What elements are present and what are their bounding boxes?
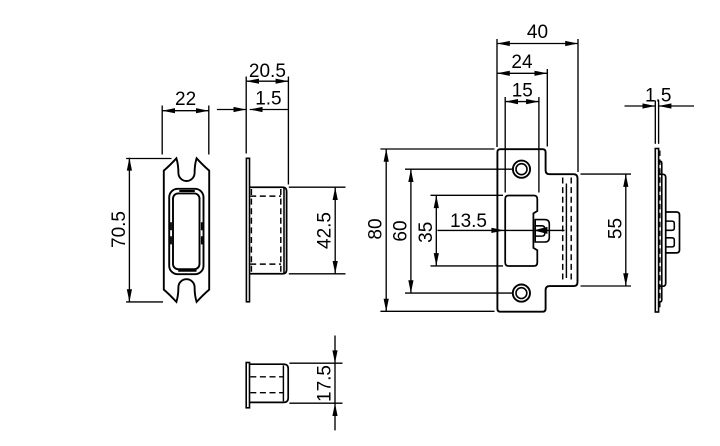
svg-text:13.5: 13.5 xyxy=(450,211,487,232)
svg-text:55: 55 xyxy=(605,218,626,239)
svg-text:1.5: 1.5 xyxy=(645,86,671,107)
opening outer ring xyxy=(169,189,203,274)
central cutout xyxy=(505,196,537,267)
dimension 35 xyxy=(431,195,504,266)
dimension 60 xyxy=(405,169,513,293)
hidden line top xyxy=(250,376,283,378)
screw hole top outer xyxy=(513,161,530,178)
latch bolt outer xyxy=(535,220,549,242)
dimension 22 xyxy=(162,106,209,155)
case inner rim line xyxy=(283,188,285,273)
latch box xyxy=(666,212,680,253)
svg-text:17.5: 17.5 xyxy=(315,365,336,402)
dimension 20.5 xyxy=(246,77,288,185)
opening inner ring xyxy=(173,193,200,269)
body inner rim line xyxy=(282,365,284,401)
dimension 70.5 xyxy=(126,158,171,302)
dimension 17.5 xyxy=(289,336,342,431)
dimension 80 xyxy=(380,149,494,312)
dimension 24 xyxy=(497,69,547,147)
plug body xyxy=(250,364,289,402)
dimension 1.5 right xyxy=(625,101,695,144)
screw hole top inner xyxy=(516,164,527,175)
plug flange xyxy=(246,363,249,408)
latch case box xyxy=(250,187,287,274)
strike plate with case silhouette xyxy=(497,149,577,312)
dimension 1.5 left xyxy=(217,109,289,111)
prong 1 xyxy=(666,221,675,230)
hidden line bottom xyxy=(250,392,283,394)
svg-text:70.5: 70.5 xyxy=(109,211,130,248)
dimension 13.5 leader xyxy=(438,229,565,231)
case front edge line xyxy=(565,184,567,279)
svg-text:35: 35 xyxy=(416,222,437,243)
plate edge view xyxy=(655,149,658,313)
case body xyxy=(659,174,666,286)
faceplate outline with scalloped ends xyxy=(164,158,209,302)
hidden line top xyxy=(250,195,281,197)
dimension 15 xyxy=(505,97,539,193)
hidden dash bottom band xyxy=(178,270,196,272)
svg-text:20.5: 20.5 xyxy=(249,61,286,82)
svg-text:22: 22 xyxy=(175,89,196,110)
hidden dash left band xyxy=(170,222,172,244)
middle step layer xyxy=(659,161,662,302)
prong 2 xyxy=(666,238,675,247)
dimension 40 xyxy=(497,39,578,172)
screw hole bottom outer xyxy=(513,285,530,302)
faceplate edge view xyxy=(246,158,249,301)
svg-text:15: 15 xyxy=(512,80,533,101)
hidden line bottom xyxy=(250,263,281,265)
svg-text:80: 80 xyxy=(366,218,387,239)
dimension 42.5 xyxy=(289,187,346,274)
case hidden line 2 xyxy=(570,178,572,284)
case hidden line 1 xyxy=(562,178,564,284)
hidden dash top band xyxy=(179,190,195,192)
hidden line plate back edge xyxy=(250,189,252,272)
svg-text:24: 24 xyxy=(511,52,533,73)
hidden line vertical in case xyxy=(280,189,282,272)
svg-text:42.5: 42.5 xyxy=(315,212,336,249)
latch bolt inner xyxy=(535,226,545,236)
hidden dash right band xyxy=(201,222,203,244)
screw hole bottom inner xyxy=(516,288,527,299)
hidden centre line xyxy=(659,151,661,311)
dimension 55 xyxy=(581,174,632,286)
svg-text:60: 60 xyxy=(390,220,411,241)
svg-text:1.5: 1.5 xyxy=(255,89,281,110)
svg-text:40: 40 xyxy=(527,22,548,43)
